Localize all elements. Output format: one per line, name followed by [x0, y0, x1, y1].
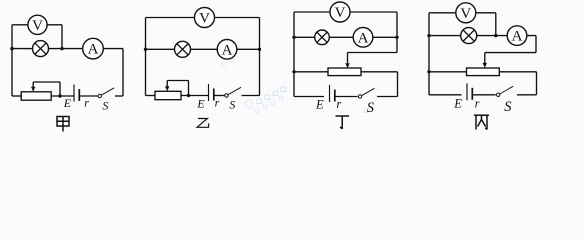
svg-text:S: S — [102, 98, 108, 112]
svg-text:S: S — [504, 99, 512, 115]
svg-text:S: S — [229, 97, 235, 111]
svg-text:V: V — [199, 11, 210, 27]
svg-text:A: A — [88, 42, 99, 58]
svg-text:S: S — [367, 100, 375, 116]
svg-text:E: E — [453, 97, 462, 111]
svg-text:V: V — [32, 18, 43, 34]
svg-text:E: E — [63, 96, 72, 110]
svg-text:E: E — [315, 98, 324, 112]
svg-text:A: A — [222, 42, 233, 58]
svg-text:A: A — [358, 30, 369, 46]
svg-text:A: A — [512, 29, 523, 45]
svg-text:V: V — [335, 5, 346, 21]
svg-text:E: E — [196, 96, 205, 110]
svg-text:r: r — [84, 95, 89, 109]
svg-text:r: r — [336, 97, 341, 111]
svg-text:r: r — [215, 96, 220, 110]
svg-text:V: V — [460, 6, 471, 22]
svg-text:r: r — [475, 96, 480, 110]
